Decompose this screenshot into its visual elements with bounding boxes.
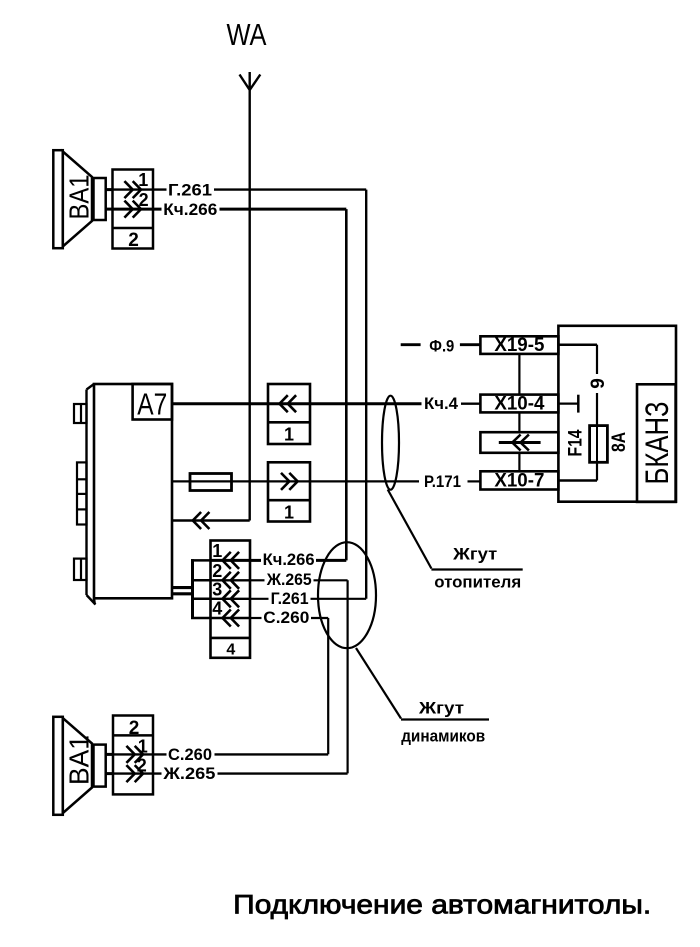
svg-text:Кч.266: Кч.266 [163,200,217,219]
svg-text:1: 1 [138,736,148,756]
svg-text:4: 4 [226,642,235,659]
svg-text:Ж.265: Ж.265 [162,764,215,783]
svg-text:отопителя: отопителя [434,573,521,592]
svg-text:2: 2 [212,561,222,581]
svg-text:1: 1 [212,541,222,561]
svg-text:Ж.265: Ж.265 [266,570,312,589]
svg-text:1: 1 [138,170,148,190]
svg-text:Ф.9: Ф.9 [429,336,454,355]
svg-text:Подключение автомагнитолы.: Подключение автомагнитолы. [233,890,651,920]
svg-text:X19-5: X19-5 [494,335,544,356]
svg-text:A7: A7 [137,387,167,422]
svg-text:Г.261: Г.261 [168,181,212,200]
svg-text:С.260: С.260 [168,745,212,764]
svg-text:2: 2 [139,190,149,210]
svg-text:1: 1 [284,425,294,445]
svg-text:F14: F14 [566,429,587,456]
svg-text:Жгут: Жгут [418,699,464,718]
svg-text:Г.261: Г.261 [271,589,309,608]
svg-text:X10-4: X10-4 [494,394,544,415]
svg-text:WA: WA [227,17,267,52]
svg-text:Кч.266: Кч.266 [263,550,315,569]
svg-text:2: 2 [128,230,139,251]
svg-text:динамиков: динамиков [401,726,485,745]
svg-text:Жгут: Жгут [452,544,497,563]
svg-text:X10-7: X10-7 [494,471,544,492]
svg-text:Р.171: Р.171 [424,472,461,491]
svg-text:БКАНЗ: БКАНЗ [639,402,675,485]
svg-text:Кч.4: Кч.4 [424,394,459,413]
svg-text:8A: 8A [609,432,630,452]
svg-text:3: 3 [212,580,222,600]
svg-text:4: 4 [212,599,222,619]
svg-text:1: 1 [284,502,294,522]
svg-text:2: 2 [137,756,147,776]
svg-text:С.260: С.260 [263,608,309,627]
svg-text:9: 9 [588,378,609,389]
svg-text:BA1: BA1 [64,175,95,220]
svg-text:BA1: BA1 [64,735,95,785]
